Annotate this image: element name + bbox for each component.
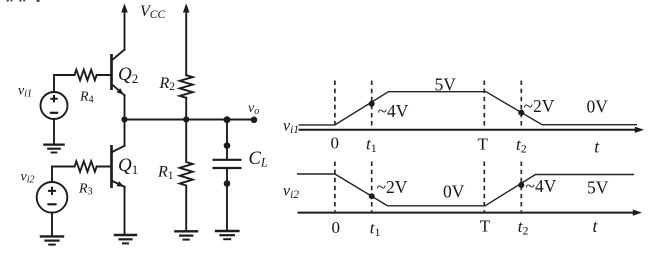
waveform vi2	[297, 174, 634, 206]
resistor R2	[180, 75, 193, 98]
svg-text:R2: R2	[159, 75, 176, 93]
wire output node line	[125, 119, 255, 121]
dot ~4V vi1	[369, 101, 375, 107]
axis t vi2	[298, 210, 643, 216]
dashed line t2 vi1	[520, 81, 522, 130]
svg-text:Q2: Q2	[118, 64, 138, 86]
svg-text:~4V: ~4V	[378, 101, 409, 121]
svg-text:vo: vo	[248, 101, 259, 117]
svg-text:t2: t2	[518, 217, 529, 238]
svg-text:vi1: vi1	[18, 84, 32, 100]
svg-text:t1: t1	[370, 219, 381, 240]
svg-text:CL: CL	[249, 149, 268, 170]
wire R4 to Q2 base	[97, 74, 112, 76]
svg-text:R3: R3	[78, 181, 93, 197]
resistor R1	[180, 120, 193, 232]
svg-text:5V: 5V	[587, 178, 609, 198]
svg-text:Q1: Q1	[118, 155, 138, 177]
wire Q1 collector to node	[124, 120, 126, 146]
voltage source vi2	[37, 182, 68, 213]
svg-text:~2V: ~2V	[524, 96, 555, 116]
wire vi2 bottom to ground	[51, 213, 53, 237]
dashed line t1 vi1	[371, 81, 373, 130]
wire vi1 bottom to ground	[53, 119, 55, 145]
svg-text:~4V: ~4V	[526, 176, 557, 196]
capacitor CL	[213, 120, 242, 232]
power VCC arrow R2	[183, 4, 190, 76]
svg-text:T: T	[478, 135, 489, 154]
transistor Q2	[112, 50, 125, 96]
svg-text:t: t	[593, 216, 599, 236]
dashed line t1 vi2	[371, 162, 373, 212]
svg-text:~2V: ~2V	[377, 177, 408, 197]
wire Q1 emitter to ground	[124, 187, 126, 235]
dot ~2V vi1	[518, 110, 524, 116]
wire R3 to Q1 base	[97, 166, 112, 168]
svg-text:vi2: vi2	[21, 170, 35, 186]
ground Q1	[114, 235, 137, 243]
node vo dot	[251, 117, 258, 124]
dashed line 0 vi1	[334, 81, 336, 130]
svg-text:t: t	[594, 136, 600, 156]
svg-text:vi2: vi2	[283, 183, 299, 202]
wire Q2 emitter to node	[124, 95, 126, 119]
svg-text:VCC: VCC	[140, 3, 165, 21]
dashed line t2 vi2	[520, 162, 522, 212]
svg-text:vi1: vi1	[283, 118, 299, 137]
waveform vi1	[299, 92, 638, 125]
svg-text:0V: 0V	[443, 181, 465, 201]
wire R2 to node	[185, 98, 187, 120]
dot ~2V vi2	[369, 193, 375, 199]
svg-text:t2: t2	[516, 135, 527, 156]
junction dot Q2/Q1	[121, 116, 127, 122]
svg-text:t1: t1	[366, 135, 377, 156]
svg-text:0: 0	[331, 133, 340, 152]
dot ~4V vi2	[518, 182, 524, 188]
svg-text:5V: 5V	[435, 75, 457, 95]
power VCC arrow	[121, 4, 128, 50]
resistor R4	[75, 70, 97, 81]
svg-text:R1: R1	[157, 164, 174, 182]
cut-off text fragments top edge	[7, 0, 40, 2]
transistor Q1	[112, 145, 125, 188]
wire vi2 top to R3	[52, 167, 75, 183]
dashed line T vi2	[483, 162, 485, 212]
dashed line T vi1	[483, 81, 485, 130]
ground vi1	[43, 145, 65, 153]
voltage source vi1	[41, 92, 68, 119]
dashed line 0 vi2	[334, 162, 336, 212]
ground CL	[215, 231, 240, 239]
junction dot R2/R1	[183, 116, 189, 122]
wire vi1 top to R4	[54, 75, 75, 92]
ground R1	[174, 231, 198, 239]
svg-text:T: T	[480, 217, 491, 236]
svg-text:0: 0	[332, 218, 341, 237]
svg-text:0V: 0V	[587, 97, 609, 117]
ground vi2	[40, 236, 64, 244]
svg-text:R4: R4	[79, 90, 94, 106]
resistor R3	[75, 161, 97, 172]
axis t vi1	[299, 127, 645, 133]
junction dot CL top	[224, 116, 231, 123]
